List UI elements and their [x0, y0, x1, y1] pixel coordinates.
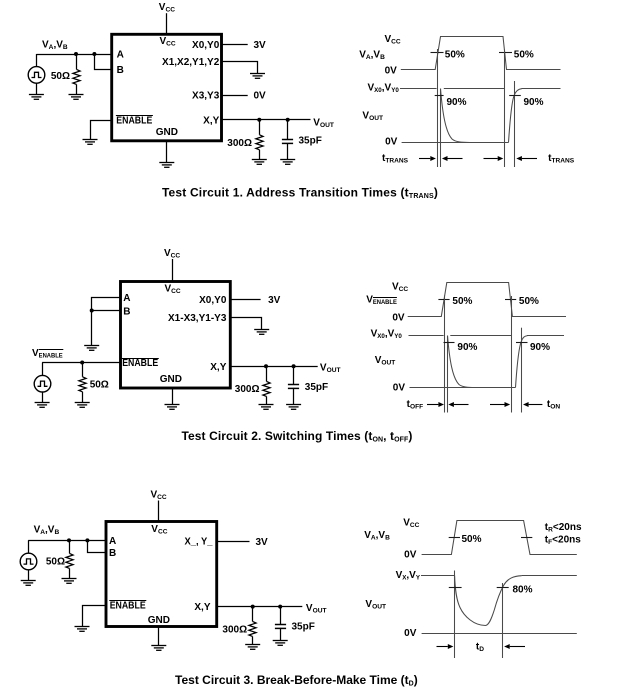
resistor R3 50ohm: [79, 377, 86, 392]
svg-text:B: B: [123, 306, 130, 317]
svg-text:A: A: [117, 50, 124, 61]
svg-text:VENABLE: VENABLE: [366, 294, 397, 306]
svg-text:VOUT: VOUT: [375, 355, 396, 367]
junction on A wire at R1: [74, 52, 78, 56]
pulse source VS2: [34, 375, 51, 392]
svg-text:VCC: VCC: [403, 518, 419, 530]
svg-text:tOFF: tOFF: [407, 399, 424, 411]
svg-text:VOUT: VOUT: [320, 363, 341, 375]
wire R6 top lead: [252, 607, 254, 622]
arrow left (diagram 3): [437, 644, 454, 649]
level line VX0,VY0 seg c (diagram 2): [527, 335, 564, 337]
svg-text:300Ω: 300Ω: [222, 625, 247, 636]
svg-text:VCC: VCC: [392, 281, 408, 293]
svg-text:VCC: VCC: [160, 36, 176, 48]
ground (R2): [252, 160, 267, 165]
svg-text:X0,Y0: X0,Y0: [192, 40, 220, 51]
wire VA,VB to pin A: [36, 54, 111, 56]
vertical ref line right-2 (diagram 2): [521, 328, 523, 413]
svg-text:tTRANS: tTRANS: [548, 153, 575, 165]
svg-text:VX,VY: VX,VY: [396, 570, 421, 582]
arrow right-inner (diagram 2): [490, 402, 510, 407]
level line VX,VY seg b (diagram 3): [522, 575, 577, 577]
wire A,B tie bar: [92, 298, 121, 346]
tick 80% right (diagram 3): [497, 587, 509, 589]
wire X_,Y_ to 3V: [217, 541, 250, 543]
waveform VOUT rise (diagram 1): [509, 89, 523, 143]
wire R3 top lead: [82, 363, 84, 377]
svg-text:90%: 90%: [524, 97, 544, 108]
level line VX0,VY0 seg b (diagram 2): [450, 335, 511, 337]
arrow left-outer (diagram 1): [419, 156, 436, 161]
wire X,Y to VOUT (U2): [230, 366, 317, 368]
wire R2 top lead: [259, 120, 261, 135]
junction X,Y at C2: [292, 364, 296, 368]
wire R6 bottom lead: [252, 636, 254, 644]
svg-text:0V: 0V: [385, 65, 398, 76]
svg-text:50Ω: 50Ω: [51, 71, 70, 82]
wire VCC to U3: [158, 501, 160, 522]
wire VCC to U2: [172, 259, 174, 282]
svg-text:50%: 50%: [514, 49, 534, 60]
mux IC U2 (Test Circuit 2): [121, 282, 231, 389]
waveform VOUT dip fall (diagram 3): [455, 576, 486, 626]
svg-text:tTRANS: tTRANS: [382, 153, 409, 165]
vertical ref line left-1 (diagram 2): [444, 296, 446, 413]
junction X,Y at C3: [278, 605, 282, 609]
wire VS3 bottom lead: [28, 570, 30, 580]
0V reference line output (diagram 3): [422, 633, 577, 635]
wire C3 bottom lead: [280, 628, 282, 641]
waveform VOUT decay (diagram 2): [448, 336, 516, 388]
wire ENABLE pin to ground: [91, 121, 112, 140]
svg-text:VCC: VCC: [385, 34, 401, 46]
arrow right-outer (diagram 1): [516, 156, 537, 161]
svg-text:VCC: VCC: [151, 524, 167, 536]
op-amp/mux IC U1 (Test Circuit 1): [112, 34, 222, 141]
vertical ref line left-2 (diagram 1): [440, 89, 442, 168]
ground (VS2): [35, 403, 50, 408]
svg-text:ENABLE: ENABLE: [116, 116, 152, 127]
mux IC U3 (Test Circuit 3): [106, 522, 217, 627]
wire source VS1 top lead: [36, 54, 38, 67]
svg-text:0V: 0V: [404, 550, 417, 561]
vertical ref line left-2 (diagram 2): [447, 336, 449, 413]
tick 80% left (diagram 3): [449, 587, 462, 589]
wire R4 bottom lead: [266, 396, 268, 404]
ground (C2): [286, 405, 301, 410]
waveform VOUT dip rise (diagram 3): [486, 576, 522, 626]
ground (ENABLE, circuit 1): [83, 140, 98, 145]
svg-text:80%: 80%: [513, 585, 533, 596]
svg-text:35pF: 35pF: [299, 136, 322, 147]
ground (C1): [280, 160, 295, 165]
svg-text:VA,VB: VA,VB: [34, 525, 60, 537]
svg-text:ENABLE: ENABLE: [122, 358, 158, 369]
ground (R6): [245, 645, 260, 650]
junction A/B tie: [90, 309, 94, 313]
svg-text:VX0,VY0: VX0,VY0: [368, 83, 400, 95]
wire C1 bottom lead: [287, 143, 289, 159]
wire X1,X2,Y1,Y2 to ground: [222, 62, 258, 74]
level line VX0,VY0 segment b: [444, 88, 505, 90]
tick 50% left (diagram 1): [431, 52, 444, 54]
arrow right-outer (diagram 2): [523, 402, 542, 407]
level line VX0,VY0 segment c: [522, 88, 561, 90]
vertical ref line left-1 (diagram 1): [437, 49, 439, 167]
ground (VS3): [21, 581, 36, 586]
svg-text:Test Circuit 1. Address Transi: Test Circuit 1. Address Transition Times…: [162, 186, 438, 201]
wire X3,Y3 to 0V: [222, 95, 248, 97]
ground (X1-X3,Y1-Y3): [254, 330, 269, 335]
tick 90% right (diagram 1): [509, 95, 521, 97]
wire X1-X3,Y1-Y3 to ground: [230, 318, 261, 330]
capacitor C1 35pF: [282, 140, 293, 144]
vertical ref line right-2 (diagram 1): [514, 81, 516, 167]
svg-text:GND: GND: [156, 127, 178, 138]
ground (C3): [273, 641, 288, 646]
svg-text:A: A: [123, 293, 130, 304]
svg-text:X,Y: X,Y: [194, 602, 210, 613]
tick 50% right (diagram 3): [521, 537, 532, 539]
junction X,Y at R2: [257, 118, 261, 122]
0V reference line output (diagram 2): [410, 387, 516, 389]
svg-text:50%: 50%: [462, 534, 482, 545]
resistor R2 300ohm: [256, 135, 263, 150]
svg-text:GND: GND: [148, 615, 170, 626]
wire X0,Y0 to 3V: [222, 44, 248, 46]
svg-text:VA,VB: VA,VB: [42, 40, 68, 52]
arrow left-inner (diagram 1): [442, 156, 463, 161]
svg-text:0V: 0V: [392, 312, 405, 323]
waveform VOUT rise (diagram 2): [516, 336, 528, 388]
wire VS1 bottom lead: [36, 83, 38, 94]
svg-text:ENABLE: ENABLE: [110, 601, 146, 612]
svg-text:tD: tD: [476, 641, 484, 653]
arrow right-inner (diagram 1): [484, 156, 504, 161]
svg-text:3V: 3V: [254, 40, 267, 51]
arrow right (diagram 3): [504, 644, 525, 649]
wire branch to pin B (U3): [88, 541, 107, 553]
wire X,Y to VOUT (U3): [217, 606, 303, 608]
wire C3 top lead: [280, 607, 282, 624]
vertical ref line right-1 (diagram 2): [511, 296, 513, 413]
svg-text:X,Y: X,Y: [210, 362, 226, 373]
svg-text:3V: 3V: [268, 295, 281, 306]
wire R5 bottom lead: [69, 568, 71, 578]
svg-text:X,Y: X,Y: [203, 116, 219, 127]
level line VX,VY seg a (diagram 3): [421, 575, 455, 577]
ground (VS1): [29, 95, 44, 100]
waveform VOUT decay (diagram 1): [441, 89, 509, 143]
junction X,Y at C1: [286, 118, 290, 122]
waveform input VA,VB (diagram 1): [401, 37, 561, 70]
capacitor C2 35pF: [288, 385, 299, 389]
svg-text:300Ω: 300Ω: [235, 384, 260, 395]
wire R4 top lead: [266, 366, 268, 381]
svg-text:50Ω: 50Ω: [90, 379, 109, 390]
svg-text:0V: 0V: [393, 382, 406, 393]
level line VX0,VY0 seg a (diagram 2): [409, 335, 444, 337]
wire R5 top lead: [69, 540, 71, 553]
svg-text:300Ω: 300Ω: [227, 138, 252, 149]
tick 50% left (diagram 3): [449, 537, 460, 539]
wire R3 bottom lead: [82, 392, 84, 402]
ground (R1): [69, 95, 84, 100]
svg-text:X3,Y3: X3,Y3: [192, 91, 220, 102]
svg-text:VCC: VCC: [151, 490, 167, 502]
junction on A wire at R5: [67, 538, 71, 542]
wire ENABLE pin to ground (U3): [83, 606, 107, 627]
ground (R5): [62, 579, 77, 584]
wire GND pin down (U2): [172, 388, 174, 405]
ground (X1,X2,Y1,Y2): [250, 74, 265, 79]
wire B pin stub: [92, 310, 121, 312]
wire C2 bottom lead: [293, 388, 295, 404]
svg-text:GND: GND: [160, 374, 182, 385]
ground (U2 GND): [165, 405, 180, 410]
ground (U1 GND): [159, 163, 174, 168]
resistor R6 300ohm: [249, 621, 256, 636]
arrow left-outer (diagram 2): [427, 402, 444, 407]
arrow left-inner (diagram 2): [448, 402, 468, 407]
svg-text:VA,VB: VA,VB: [364, 530, 390, 542]
svg-text:B: B: [109, 548, 116, 559]
svg-text:90%: 90%: [457, 342, 477, 353]
resistor R1 50ohm: [73, 69, 80, 84]
tick 90% left (diagram 1): [435, 95, 444, 97]
wire VS3 top lead: [28, 540, 30, 553]
ground (ENABLE, circuit 3): [75, 627, 90, 632]
svg-text:Test Circuit 2. Switching Time: Test Circuit 2. Switching Times (tON, tO…: [181, 429, 412, 444]
junction X,Y at R6: [251, 605, 255, 609]
svg-text:35pF: 35pF: [305, 382, 328, 393]
tick 90% right (diagram 2): [516, 342, 528, 344]
svg-text:Test Circuit 3. Break-Before-M: Test Circuit 3. Break-Before-Make Time (…: [175, 673, 418, 688]
tick 50% right (diagram 2): [505, 299, 516, 301]
vertical ref line right-1 (diagram 1): [504, 50, 506, 168]
svg-text:tR<20ns: tR<20ns: [545, 522, 582, 534]
tick 90% left (diagram 2): [444, 342, 455, 344]
ground (A/B tie, circuit 2): [84, 346, 99, 351]
capacitor C3 35pF: [275, 625, 286, 629]
junction X,Y at R4: [264, 364, 268, 368]
svg-text:VA,VB: VA,VB: [359, 50, 385, 62]
0V reference line output (diagram 1): [402, 142, 509, 144]
svg-text:50%: 50%: [452, 296, 472, 307]
svg-text:3V: 3V: [256, 537, 269, 548]
svg-text:0V: 0V: [385, 136, 398, 147]
wire GND pin down (U3): [158, 627, 160, 646]
ground (R3): [75, 403, 90, 408]
wire C1 top lead: [287, 120, 289, 140]
junction ENABLE at R3: [80, 361, 84, 365]
pulse source VS3: [20, 553, 37, 570]
svg-text:VX0,VY0: VX0,VY0: [371, 328, 403, 340]
pulse source VS1: [28, 67, 45, 84]
svg-text:35pF: 35pF: [292, 622, 315, 633]
svg-text:B: B: [117, 65, 124, 76]
tick 50% left (diagram 2): [438, 299, 449, 301]
junction on A wire at B branch (U3): [85, 538, 89, 542]
wire VS2 bottom lead: [42, 392, 44, 402]
svg-text:A: A: [109, 536, 116, 547]
wire C2 top lead: [293, 366, 295, 384]
wire VCC to U1: [166, 13, 168, 34]
waveform input VENABLE (diagram 2): [408, 283, 566, 317]
svg-text:X0,Y0: X0,Y0: [199, 295, 227, 306]
junction on A wire at B branch: [92, 52, 96, 56]
svg-text:X1,X2,Y1,Y2: X1,X2,Y1,Y2: [162, 57, 220, 68]
svg-text:X_, Y_: X_, Y_: [185, 537, 213, 548]
svg-text:VCC: VCC: [165, 284, 181, 296]
resistor R5 50ohm: [66, 553, 73, 568]
vertical ref line left (diagram 3): [454, 571, 456, 659]
svg-text:VOUT: VOUT: [313, 118, 334, 130]
wire R1 bottom lead: [76, 84, 78, 94]
wire GND pin down: [166, 141, 168, 163]
svg-text:tON: tON: [547, 399, 560, 411]
vertical ref line right (diagram 3): [502, 583, 504, 658]
ground (U3 GND): [151, 646, 166, 651]
wire branch to pin B: [95, 54, 112, 70]
resistor R4 300ohm: [263, 381, 270, 396]
wire X0,Y0 to 3V (U2): [230, 299, 260, 301]
ground (R4): [259, 405, 274, 410]
svg-text:VCC: VCC: [159, 2, 175, 14]
waveform input VA,VB (diagram 3): [422, 521, 577, 555]
svg-text:VOUT: VOUT: [365, 599, 386, 611]
wire R2 bottom lead: [259, 150, 261, 160]
wire VS2 top lead: [42, 363, 44, 376]
svg-text:0V: 0V: [254, 91, 267, 102]
wire VA,VB to pin A (U3): [28, 540, 106, 542]
svg-text:VOUT: VOUT: [306, 603, 327, 615]
svg-text:50Ω: 50Ω: [46, 557, 65, 568]
svg-text:VOUT: VOUT: [362, 111, 383, 123]
svg-text:tF<20ns: tF<20ns: [545, 535, 581, 547]
svg-text:VCC: VCC: [164, 248, 180, 259]
wire R1 top lead: [76, 54, 78, 69]
svg-text:50%: 50%: [519, 296, 539, 307]
svg-text:50%: 50%: [445, 49, 465, 60]
level line VX0,VY0 segment a: [400, 88, 437, 90]
svg-text:0V: 0V: [404, 628, 417, 639]
svg-text:90%: 90%: [447, 97, 467, 108]
svg-text:90%: 90%: [530, 342, 550, 353]
svg-text:X1-X3,Y1-Y3: X1-X3,Y1-Y3: [168, 313, 227, 324]
tick 50% right (diagram 1): [499, 52, 512, 54]
wire VENABLE to ENABLE pin: [42, 362, 120, 364]
wire X,Y to VOUT: [222, 119, 311, 121]
